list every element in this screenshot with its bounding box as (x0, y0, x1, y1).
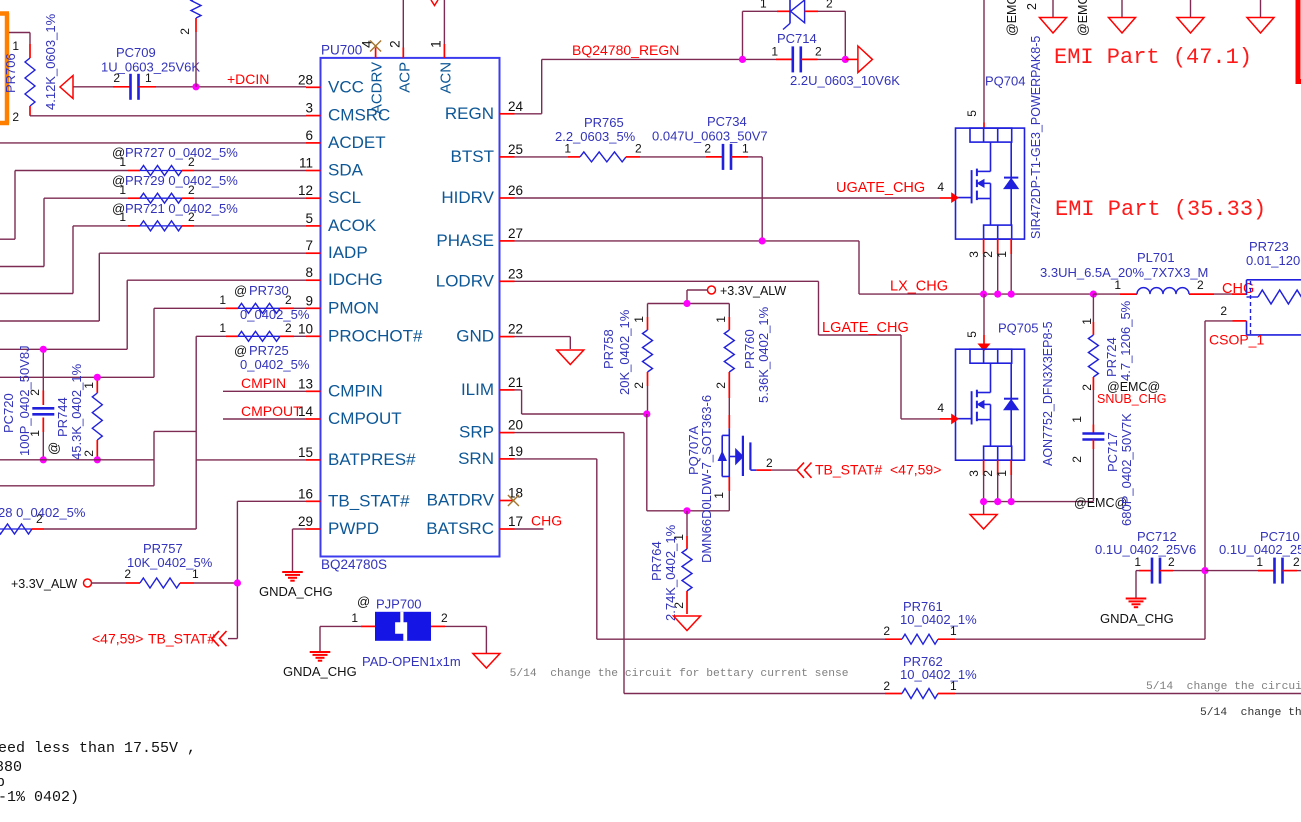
svg-text:20K_0402_1%: 20K_0402_1% (617, 309, 632, 395)
svg-text:UGATE_CHG: UGATE_CHG (836, 180, 925, 196)
wire REGN pin 24 up and right (515, 42, 743, 114)
svg-text:2: 2 (826, 0, 833, 11)
svg-text:<47,59>: <47,59> (890, 462, 941, 478)
svg-text:2: 2 (1025, 3, 1039, 10)
svg-text:21: 21 (508, 375, 523, 390)
wire BATPRES# pin 15 with staircase to left (0, 336, 306, 529)
junction PHASE/PC734 (759, 237, 766, 244)
svg-text:BQ24780_REGN: BQ24780_REGN (572, 42, 679, 58)
no-connect X on ACDRV pin 4 (370, 41, 381, 52)
svg-text:25: 25 (508, 142, 523, 157)
capacitor PC712 0.1U_0402_25V6 with ground (1095, 529, 1205, 598)
svg-text:1: 1 (351, 611, 358, 625)
svg-text:PR764: PR764 (649, 541, 664, 581)
resistor PR761 10_0402_1% on SRN row (597, 599, 1205, 644)
svg-text:PC734: PC734 (707, 114, 747, 129)
svg-text:PHASE: PHASE (436, 231, 494, 250)
transistor PQ704 SIR472DP-T1-GE3_POWERPAK8-5 (high-side FET) (937, 0, 1043, 239)
svg-text:100P_0402_50V8J: 100P_0402_50V8J (17, 345, 32, 456)
svg-text:PR706: PR706 (3, 53, 18, 93)
EMI ground arrows top right (1040, 0, 1275, 33)
resistor PR729 0_0402_5% (0 ohm) on SCL (0, 173, 306, 267)
svg-text:SCL: SCL (328, 188, 361, 207)
svg-text:PR727 0_0402_5%: PR727 0_0402_5% (125, 145, 238, 160)
svg-text:2: 2 (441, 611, 448, 625)
svg-text:5: 5 (965, 110, 979, 117)
bottom rail wire from left edge (0, 459, 154, 461)
junction bottom rail / PR764 (683, 507, 690, 514)
svg-text:EMI Part (47.1): EMI Part (47.1) (1054, 45, 1252, 70)
wire PHASE pin 27 to LX (515, 241, 860, 294)
svg-text:2: 2 (883, 624, 890, 638)
svg-text:5/14 change the circ: 5/14 change the circ (1200, 707, 1301, 719)
svg-text:PR760: PR760 (742, 329, 757, 369)
svg-text:2: 2 (981, 470, 995, 477)
svg-text:2: 2 (981, 251, 995, 258)
svg-text:6: 6 (305, 128, 313, 143)
junction REGN/diode left (739, 56, 746, 63)
wire CSOP_1 from PR723 pin 2 down (1205, 321, 1264, 639)
ground GNDA_CHG at PC712 (1100, 599, 1174, 627)
svg-text:BATSRC: BATSRC (426, 519, 494, 538)
svg-text:IDCHG: IDCHG (328, 270, 383, 289)
junction LX PQ704 pin1 (1008, 291, 1015, 298)
resistor PR724 4.7_1206_5% snubber (vertical) (1080, 294, 1166, 424)
svg-text:PU700: PU700 (321, 43, 362, 58)
junction LX PQ704 pin2 (994, 291, 1001, 298)
svg-text:AON7752_DFN3X3EP8-5: AON7752_DFN3X3EP8-5 (1041, 321, 1055, 466)
wire PR758 node down to bottom rail (647, 414, 730, 511)
svg-text:1: 1 (672, 534, 686, 541)
svg-text:1: 1 (771, 45, 778, 59)
svg-text:1: 1 (119, 155, 126, 169)
junction ILIM/PR758 (643, 410, 650, 417)
svg-text:-1% 0402): -1% 0402) (0, 789, 79, 806)
resistor PR730 0_0402_5% on PMON pin 9 (0, 283, 310, 377)
junction PC720 top on IDCHG wire (40, 346, 47, 353)
svg-text:CMPOUT: CMPOUT (328, 409, 402, 428)
svg-text:PC709: PC709 (116, 45, 156, 60)
svg-text:PR758: PR758 (601, 329, 616, 369)
IC top pins ACDRV ACP ACN (360, 0, 455, 114)
net connector arrow right of PC714 (845, 46, 872, 73)
svg-text:4: 4 (937, 180, 944, 194)
svg-text:3.3UH_6.5A_20%_7X7X3_M: 3.3UH_6.5A_20%_7X7X3_M (1040, 265, 1208, 280)
junction PR744 bottom (94, 456, 101, 463)
svg-text:2: 2 (1220, 304, 1227, 318)
svg-text:680P_0402_50V7K: 680P_0402_50V7K (1119, 413, 1134, 526)
svg-text:7: 7 (305, 238, 313, 253)
svg-text:24: 24 (508, 99, 524, 114)
IC left pin stubs and names (298, 72, 423, 538)
svg-text:BQ24780S: BQ24780S (321, 557, 387, 572)
svg-text:16: 16 (298, 486, 313, 501)
svg-text:1: 1 (82, 382, 96, 389)
svg-text:2: 2 (635, 142, 642, 156)
svg-text:0_0402_5%: 0_0402_5% (240, 357, 310, 372)
junction LX PQ704 pin3 (980, 291, 987, 298)
red block border corner (top right) (1296, 0, 1301, 84)
svg-text:PL701: PL701 (1137, 250, 1175, 265)
svg-text:PR757: PR757 (143, 541, 183, 556)
wire ACDET pin 6 from left edge (0, 142, 306, 144)
wire TB_STAT# pin 16 down to junction (237, 501, 306, 638)
svg-text:SDA: SDA (328, 161, 364, 180)
svg-text:4.7_1206_5%: 4.7_1206_5% (1118, 300, 1133, 381)
svg-text:28 0_0402_5%: 28 0_0402_5% (0, 505, 86, 520)
wire BATSRC pin 17 CHG stub (515, 513, 563, 530)
wire +DCIN to VCC pin 28 (156, 71, 306, 87)
svg-text:CMPIN: CMPIN (328, 381, 383, 400)
svg-text:ILIM: ILIM (461, 380, 494, 399)
net stub TB_STAT# to chevron (left instance) (92, 631, 237, 647)
wire CMPIN pin 13 (223, 375, 306, 391)
svg-text:5: 5 (305, 211, 313, 226)
svg-text:2: 2 (188, 183, 195, 197)
svg-text:GNDA_CHG: GNDA_CHG (283, 664, 357, 679)
resistor PR725 0_0402_5% on PROCHOT# pin 10 (196, 321, 310, 372)
wire PWPD pin 29 to ground (293, 529, 307, 571)
ground triangle at GND pin 22 (557, 350, 584, 365)
svg-text:2: 2 (1070, 456, 1084, 463)
junction LX / PR724 / PL701 (1090, 291, 1097, 298)
svg-text:2: 2 (1197, 278, 1204, 292)
svg-text:ACN: ACN (437, 62, 454, 94)
svg-text:2: 2 (188, 155, 195, 169)
orange block border corner (top-left) (0, 13, 9, 124)
svg-text:PR724: PR724 (1104, 337, 1119, 377)
svg-text:2: 2 (815, 45, 822, 59)
svg-text:PR725: PR725 (249, 343, 289, 358)
svg-text:2: 2 (124, 567, 131, 581)
svg-text:15: 15 (298, 445, 313, 460)
capacitor PC734 0.047U_0603_50V7 (640, 114, 768, 241)
net connector arrow left of PC709 (60, 76, 73, 99)
svg-text:0.1U_0402_25V6: 0.1U_0402_25V6 (1095, 542, 1196, 557)
svg-text:PMON: PMON (328, 298, 379, 317)
svg-text:ACDET: ACDET (328, 133, 386, 152)
svg-text:1: 1 (1080, 318, 1094, 325)
ground triangle below PQ705 (970, 515, 997, 530)
svg-text:+3.3V_ALW: +3.3V_ALW (11, 577, 77, 591)
junction +DCIN node (192, 83, 199, 90)
svg-text:2: 2 (188, 210, 195, 224)
svg-text:1: 1 (950, 624, 957, 638)
svg-text:IADP: IADP (328, 243, 368, 262)
junction PC720 bottom (40, 456, 47, 463)
wire ILIM pin 21 to PR758 node (515, 390, 647, 414)
svg-text:2: 2 (883, 679, 890, 693)
ground GNDA_CHG at PJP700 pin 1 (283, 652, 357, 679)
ground triangle at PJP700 pin 2 (473, 654, 500, 669)
junction CSOP vertical / cap row (1201, 567, 1208, 574)
svg-text:@: @ (234, 283, 247, 298)
svg-text:PR729 0_0402_5%: PR729 0_0402_5% (125, 173, 238, 188)
svg-text:LODRV: LODRV (436, 271, 495, 290)
svg-text:4: 4 (360, 40, 375, 48)
svg-text:12: 12 (298, 183, 313, 198)
svg-text:4: 4 (937, 401, 944, 415)
svg-text:2: 2 (632, 382, 646, 389)
ground row wire under PQ705 (984, 496, 1128, 514)
svg-text:SIR472DP-T1-GE3_POWERPAK8-5: SIR472DP-T1-GE3_POWERPAK8-5 (1029, 36, 1043, 239)
capacitor PC709 1U_0603_25V6K (73, 45, 200, 100)
svg-text:BATPRES#: BATPRES# (328, 450, 416, 469)
notes text block bottom left (cut) (0, 740, 196, 806)
wire LODRV pin 23 LGATE_CHG staircase to PQ705 gate (515, 281, 952, 419)
junction PR744 top on PMON wire (94, 374, 101, 381)
svg-text:20: 20 (508, 418, 523, 433)
svg-text:2: 2 (1168, 555, 1175, 569)
resistor PR757 10K_0402_5% (11, 541, 237, 591)
svg-text:1: 1 (742, 142, 749, 156)
svg-text:PJP700: PJP700 (376, 597, 422, 612)
svg-text:REGN: REGN (445, 104, 494, 123)
svg-text:1: 1 (714, 316, 728, 323)
svg-text:PR744: PR744 (55, 397, 70, 437)
svg-text:2.2U_0603_10V6K: 2.2U_0603_10V6K (790, 73, 900, 88)
svg-text:1: 1 (760, 0, 767, 11)
svg-text:1: 1 (1134, 555, 1141, 569)
svg-text:+3.3V_ALW: +3.3V_ALW (720, 284, 786, 298)
resistor PR744 45.3K_0402_1% (vertical) (46, 363, 102, 460)
svg-text:TB_STAT#: TB_STAT# (328, 491, 410, 510)
IC right pin stubs and names (426, 99, 523, 538)
wire SRN pin 19 down to PR761 row (515, 459, 597, 639)
net stub TB_STAT# right instance with chevron (771, 462, 941, 478)
resistor PR760 5.36K_0402_1% (vertical) (714, 304, 771, 416)
svg-text:1: 1 (119, 210, 126, 224)
svg-text:8: 8 (305, 265, 313, 280)
svg-text:2: 2 (36, 512, 43, 526)
svg-text:1: 1 (119, 183, 126, 197)
wire LX_CHG row (859, 279, 1093, 295)
svg-text:13: 13 (298, 376, 313, 391)
PQ705 pins 3 2 1 to ground row (967, 460, 1011, 501)
svg-text:1: 1 (12, 39, 19, 53)
resistor stub going up from +DCIN node (cut at top) (178, 0, 201, 87)
svg-text:BATDRV: BATDRV (427, 491, 495, 510)
svg-text:28: 28 (298, 72, 313, 87)
resistor PR728 0_0402_5% at left edge (cut) (0, 505, 196, 534)
resistor PR706 4.12K_0603_1% (vertical) (3, 13, 58, 124)
svg-text:2: 2 (113, 71, 120, 85)
svg-text:11: 11 (299, 156, 313, 171)
svg-text:HIDRV: HIDRV (441, 188, 494, 207)
svg-text:2: 2 (178, 28, 192, 35)
svg-text:1: 1 (219, 293, 226, 307)
svg-text:eed less than 17.55V ,: eed less than 17.55V , (0, 740, 196, 757)
svg-text:DMN66D0LDW-7_SOT363-6: DMN66D0LDW-7_SOT363-6 (699, 395, 714, 563)
transistor Q PQ707A DMN66D0LDW-7_SOT363-6 (686, 395, 773, 563)
svg-text:2: 2 (82, 450, 96, 457)
junction gnd row pin2 (994, 498, 1001, 505)
svg-text:1: 1 (995, 470, 1009, 477)
resistor PR765 2.2_0603_5% on BTST (515, 115, 643, 162)
wire CMSRC pin 3 from PR706 (30, 115, 306, 117)
resistor PR727 0_0402_5% (0 ohm) on SDA (0, 145, 306, 239)
svg-text:1: 1 (1070, 416, 1084, 423)
svg-text:GNDA_CHG: GNDA_CHG (1100, 611, 1174, 626)
svg-text:LGATE_CHG: LGATE_CHG (822, 320, 909, 336)
junction PR757/TB_STAT# (234, 579, 241, 586)
svg-text:@EMC: @EMC (1076, 0, 1090, 36)
svg-text:CSOP_1: CSOP_1 (1209, 332, 1264, 348)
svg-text:GND: GND (456, 327, 494, 346)
svg-text:10_0402_1%: 10_0402_1% (900, 667, 977, 682)
svg-text:1: 1 (632, 316, 646, 323)
wire HIDRV pin 26 UGATE_CHG to PQ704 gate (515, 180, 952, 198)
svg-text:EMI Part (35.33): EMI Part (35.33) (1055, 197, 1266, 222)
svg-text:CMPOUT: CMPOUT (241, 403, 302, 419)
svg-text:1: 1 (28, 430, 42, 437)
wire IDCHG pin 8 staircase (0, 280, 306, 349)
svg-text:2: 2 (714, 382, 728, 389)
svg-text:1: 1 (950, 679, 957, 693)
svg-text:45.3K_0402_1%: 45.3K_0402_1% (69, 363, 84, 460)
svg-text:5.36K_0402_1%: 5.36K_0402_1% (756, 306, 771, 403)
svg-text:@: @ (234, 343, 247, 358)
svg-text:10K_0402_5%: 10K_0402_5% (127, 555, 213, 570)
svg-text:SNUB_CHG: SNUB_CHG (1097, 392, 1166, 406)
PQ704 pins 3 2 1 to LX row (967, 239, 1011, 294)
junction gnd row pin1 (1008, 498, 1015, 505)
svg-text:0_0402_5%: 0_0402_5% (240, 307, 310, 322)
svg-text:PR765: PR765 (584, 115, 624, 130)
svg-text:10_0402_1%: 10_0402_1% (900, 612, 977, 627)
svg-text:SRN: SRN (458, 449, 494, 468)
svg-text:2: 2 (672, 602, 686, 609)
svg-text:PR730: PR730 (249, 283, 289, 298)
svg-text:@EMC: @EMC (1005, 0, 1019, 36)
svg-text:2: 2 (28, 389, 42, 396)
svg-text:2: 2 (12, 110, 19, 124)
svg-text:PWPD: PWPD (328, 519, 379, 538)
power tap +3.3V_ALW above PR758/PR760 (687, 284, 786, 304)
svg-text:VCC: VCC (328, 77, 364, 96)
svg-text:PROCHOT#: PROCHOT# (328, 326, 423, 345)
svg-text:PR721 0_0402_5%: PR721 0_0402_5% (125, 201, 238, 216)
junction +3.3V on top rail (683, 300, 690, 307)
svg-text:BTST: BTST (451, 147, 494, 166)
svg-text:29: 29 (298, 514, 313, 529)
svg-text:SRP: SRP (459, 423, 494, 442)
wire GND pin 22 to ground (515, 337, 571, 349)
svg-text:17: 17 (508, 514, 523, 529)
no-connect X on BATDRV pin 18 (508, 495, 519, 506)
svg-text:2: 2 (766, 456, 773, 470)
svg-text:ACDRV: ACDRV (369, 62, 386, 114)
svg-text:1: 1 (1256, 555, 1263, 569)
svg-text:PC720: PC720 (1, 393, 16, 433)
svg-text:23: 23 (508, 266, 523, 281)
svg-text:@: @ (46, 442, 61, 455)
IC PU700 BQ24780S charger controller body (321, 43, 500, 573)
svg-text:+DCIN: +DCIN (227, 71, 269, 87)
resistor PR721 0_0402_5% (0 ohm) on ACOK (0, 201, 306, 294)
svg-text:PC714: PC714 (777, 31, 817, 46)
svg-text:PR723: PR723 (1249, 239, 1289, 254)
svg-text:10: 10 (298, 321, 313, 336)
svg-text:PAD-OPEN1x1m: PAD-OPEN1x1m (362, 654, 461, 669)
svg-text:1: 1 (1114, 278, 1121, 292)
ground GNDA_CHG at PWPD (259, 572, 333, 599)
transistor PQ705 AON7752_DFN3X3EP8-5 (low-side FET) (937, 294, 1055, 466)
svg-text:4.12K_0603_1%: 4.12K_0603_1% (43, 13, 58, 110)
wire CMPOUT pin 14 (223, 403, 306, 419)
svg-text:19: 19 (508, 444, 523, 459)
svg-text:2: 2 (387, 40, 402, 48)
resistor PR723 0.01_1206 current sense in block (right edge) (1220, 239, 1301, 335)
svg-text:CHG: CHG (1222, 281, 1254, 297)
svg-text:1: 1 (564, 142, 571, 156)
top rail wire PR758-PR760 (648, 303, 730, 305)
junction REGN/diode right (842, 56, 849, 63)
svg-text:TB_STAT#: TB_STAT# (148, 631, 215, 647)
svg-text:PQ705: PQ705 (998, 321, 1038, 336)
resistor PR758 20K_0402_1% (vertical) (601, 304, 653, 415)
resistor PR762 10_0402_1% on SRP row (624, 654, 1301, 699)
svg-text:@: @ (357, 594, 370, 609)
capacitor PC714 2.2U_0603_10V6K (743, 31, 901, 88)
svg-text:PQ704: PQ704 (985, 74, 1025, 89)
svg-text:TB_STAT#: TB_STAT# (815, 462, 882, 478)
svg-text:CMPIN: CMPIN (241, 375, 286, 391)
svg-text:ACP: ACP (396, 62, 413, 93)
svg-text:3: 3 (305, 101, 313, 116)
svg-text:2: 2 (285, 321, 292, 335)
wire SRP pin 20 down to PR762 row (515, 433, 625, 694)
svg-text:5/14 change the circuit for: 5/14 change the circuit for (1146, 681, 1301, 693)
svg-text:26: 26 (508, 183, 523, 198)
wire IADP pin 7 staircase (0, 253, 306, 321)
svg-text:5: 5 (965, 331, 979, 338)
svg-text:<47,59>: <47,59> (92, 631, 143, 647)
jumper PJP700 PAD-OPEN1x1m (320, 594, 486, 669)
svg-text:GNDA_CHG: GNDA_CHG (259, 584, 333, 599)
red label fragment top edge (431, 0, 438, 6)
capacitor PC720 100P_0402_50V8J (vertical) (1, 345, 54, 459)
svg-text:2: 2 (285, 293, 292, 307)
svg-text:1: 1 (428, 40, 443, 48)
svg-text:1: 1 (712, 492, 726, 499)
svg-text:27: 27 (508, 226, 523, 241)
svg-text:CHG: CHG (531, 513, 562, 529)
svg-text:LX_CHG: LX_CHG (890, 279, 948, 295)
svg-text:2: 2 (1080, 384, 1094, 391)
resistor PR764 2.74K_0402_1% (vertical) to ground (649, 511, 692, 621)
svg-text:2: 2 (704, 142, 711, 156)
svg-text:3: 3 (967, 251, 981, 258)
inductor PL701 3.3UH_6.5A_20%_7X7X3_M (1040, 250, 1254, 297)
svg-text:3: 3 (967, 470, 981, 477)
node @EMC labels rotated (1005, 0, 1090, 36)
svg-text:5/14 change the circuit for b: 5/14 change the circuit for bettary curr… (510, 668, 849, 680)
svg-text:2: 2 (1293, 555, 1300, 569)
svg-text:1: 1 (995, 251, 1009, 258)
capacitor PC710 0.1U_0402_25V (right edge) (1205, 529, 1301, 584)
capacitor PC717 680P_0402_50V7K (vertical) (1070, 413, 1134, 526)
svg-text:ACOK: ACOK (328, 216, 377, 235)
svg-text:0.01_1206_1%: 0.01_1206_1% (1246, 253, 1301, 268)
ground triangle below PR764 (674, 616, 701, 631)
svg-text:1: 1 (145, 71, 152, 85)
svg-text:1: 1 (192, 567, 199, 581)
svg-text:PC717: PC717 (1105, 432, 1120, 472)
svg-text:1: 1 (219, 321, 226, 335)
diode above PC714 (cut at top) (743, 0, 846, 59)
junction gnd row pin3 (980, 498, 987, 505)
